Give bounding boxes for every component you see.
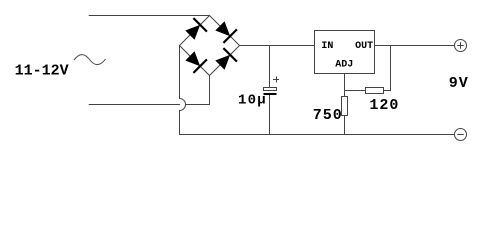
- svg-text:11-12V: 11-12V: [15, 62, 69, 79]
- svg-text:10µ: 10µ: [238, 92, 267, 108]
- svg-text:120: 120: [369, 97, 399, 114]
- svg-text:ADJ: ADJ: [335, 60, 353, 71]
- svg-text:IN: IN: [321, 41, 333, 52]
- svg-text:750: 750: [313, 107, 343, 124]
- svg-text:OUT: OUT: [355, 41, 373, 52]
- svg-text:9V: 9V: [449, 75, 469, 92]
